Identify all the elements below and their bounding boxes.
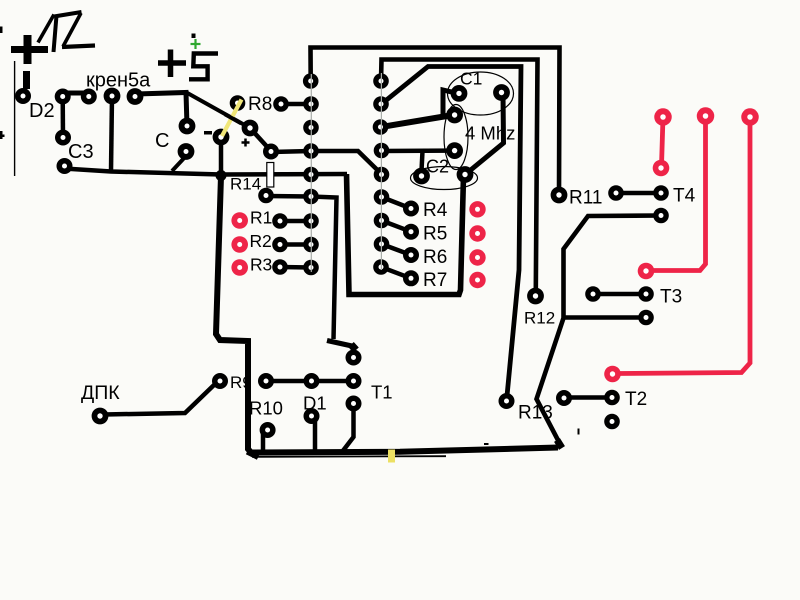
wire junction to T3 lower pad bbox=[564, 315, 647, 320]
svg-text:R7: R7 bbox=[423, 270, 447, 291]
red pad R1 bbox=[231, 212, 248, 229]
svg-text:R9: R9 bbox=[230, 373, 252, 392]
pad DPK bbox=[92, 408, 109, 425]
svg-text:R14: R14 bbox=[230, 175, 261, 194]
pad R3 right bbox=[272, 259, 288, 275]
left edge tick top bbox=[0, 27, 3, 34]
red pad column 1 bbox=[469, 201, 485, 217]
wire minus pad down to junction bbox=[219, 142, 224, 176]
left margin thin line bbox=[14, 61, 16, 176]
wire bottom rail from C3 to IC bbox=[64, 169, 347, 175]
svg-text:R8: R8 bbox=[248, 94, 272, 115]
label plus sign bbox=[242, 139, 250, 147]
green plus mark bbox=[191, 39, 201, 49]
stray dash on rail left bbox=[484, 443, 489, 445]
pad left of D1 row bbox=[258, 373, 274, 389]
red trace to T4 area bbox=[662, 117, 664, 166]
wire arrow blob at rail end bbox=[557, 440, 562, 448]
pad left of T2 bbox=[556, 390, 572, 406]
wire R3 link bbox=[280, 265, 311, 270]
pads T2 bbox=[604, 390, 620, 406]
pad R9 bbox=[212, 373, 228, 389]
yellow slash through minus pad bbox=[222, 100, 242, 137]
svg-text:T1: T1 bbox=[371, 382, 393, 403]
pad crystal bottom bbox=[446, 142, 463, 159]
wire R2 link bbox=[280, 242, 311, 247]
pad kren5a 3 bbox=[127, 88, 144, 105]
svg-text:R12: R12 bbox=[524, 309, 555, 328]
wire T1 top pad blob bbox=[351, 345, 356, 351]
svg-text:2: 2 bbox=[262, 231, 272, 251]
pad minus bbox=[213, 129, 230, 146]
pad R11 bbox=[551, 187, 568, 204]
stray tick right of rail bbox=[578, 429, 580, 435]
svg-text:R: R bbox=[250, 255, 263, 275]
resistor R14 body white rectangle bbox=[267, 163, 274, 188]
wire R10 stub bbox=[261, 434, 266, 453]
wire C bottom pad diagonal to rail bbox=[172, 156, 186, 171]
wire C2 right down U-shape back up to rail bbox=[347, 174, 464, 295]
wire plus pad to IC pin and diagonal to right column bbox=[271, 151, 382, 174]
junction dot on bottom rail bbox=[216, 170, 227, 181]
handwritten digits 12 bbox=[38, 12, 95, 52]
wire DPK pad to R9 bbox=[104, 385, 214, 415]
wire +12 lead stub to D2 pad bbox=[23, 71, 30, 89]
wire kren5a center pad down to bottom rail bbox=[111, 96, 112, 171]
svg-text:ДПК: ДПК bbox=[81, 382, 120, 404]
wire top bus 1 to R11 bbox=[311, 48, 560, 196]
wire T4 link bbox=[616, 191, 661, 196]
wire right net T4 to T3 to rail V bbox=[537, 216, 662, 445]
wire pad to C3 top bbox=[60, 97, 65, 138]
wire diagonal overlay over yellow slash bbox=[225, 114, 241, 123]
wire IC right pins diagonals to R4 R5 R6 R7 bbox=[381, 197, 411, 278]
wire T2 link bbox=[564, 395, 612, 400]
svg-text:R1: R1 bbox=[250, 208, 272, 228]
pad plus bbox=[263, 144, 279, 160]
IC U1 left column pads bbox=[303, 73, 319, 275]
pad kren5a 1 bbox=[81, 89, 97, 105]
wire top bus 2 to R12 bbox=[381, 60, 538, 291]
pad between diagonals bbox=[242, 120, 259, 137]
label minus sign bbox=[204, 131, 212, 135]
pad R10 bbox=[260, 422, 276, 438]
svg-text:крен5а: крен5а bbox=[86, 70, 151, 92]
svg-text:C: C bbox=[155, 130, 169, 152]
pad C2 left bbox=[413, 168, 430, 185]
wire R14 pad row to IC and down to T1 bbox=[266, 196, 337, 339]
wire ground net left vertical and bottom rail bbox=[216, 176, 558, 453]
wire D1 stub bbox=[313, 420, 318, 452]
pad R8 right bbox=[273, 96, 289, 112]
red pad above T2 bbox=[604, 366, 621, 383]
red pad column 3 bbox=[469, 249, 485, 265]
left edge tick lower bbox=[0, 131, 5, 139]
pad R2 right bbox=[272, 237, 288, 253]
red pad column 4 bbox=[469, 272, 485, 288]
small black dot above 5 bbox=[192, 34, 196, 39]
wire R8 link bbox=[281, 102, 311, 107]
svg-text:T2: T2 bbox=[625, 389, 647, 410]
wire rail corner nub bbox=[247, 452, 258, 458]
red trace to T3 area bbox=[652, 116, 706, 271]
wire diagonal corner to pad near minus bbox=[187, 93, 251, 129]
svg-text:R11: R11 bbox=[569, 188, 602, 209]
handwritten digit 5 bbox=[189, 54, 218, 80]
svg-text:R10: R10 bbox=[249, 398, 283, 419]
svg-text:D2: D2 bbox=[29, 100, 55, 122]
power symbol +12 plus sign bbox=[11, 35, 48, 64]
wire thin echo line under bottom rail bbox=[252, 455, 446, 458]
svg-text:T3: T3 bbox=[660, 287, 682, 308]
IC column center thin line right bbox=[380, 73, 382, 270]
pads T1 bbox=[346, 350, 362, 366]
wire D2 column pad bar bbox=[61, 91, 90, 96]
pad C2 right bbox=[457, 166, 474, 183]
red pads top row bbox=[654, 107, 759, 126]
wire top bus 3 to R13 bbox=[384, 67, 521, 397]
svg-text:C1: C1 bbox=[460, 69, 482, 89]
wire T1 top pad hook bbox=[327, 341, 356, 350]
wire diagonal to plus pad bbox=[250, 128, 271, 151]
wire IC pin to 4MHz bottom pad bbox=[381, 148, 449, 153]
svg-text:R5: R5 bbox=[423, 224, 447, 245]
crystal 4MHz outline ellipse bbox=[444, 105, 468, 170]
pad R1 right bbox=[272, 213, 288, 229]
wire thick diagonal IC pin to 4MHz top bbox=[381, 116, 447, 127]
pad crystal top bbox=[446, 107, 463, 124]
svg-text:3: 3 bbox=[263, 255, 273, 275]
pad C top bbox=[179, 118, 196, 135]
pads T4 bbox=[608, 185, 624, 201]
wire branch down to C2 left pad bbox=[422, 151, 423, 171]
red pad R3 bbox=[231, 259, 248, 276]
pad R12 bbox=[527, 288, 544, 305]
svg-text:R: R bbox=[250, 231, 263, 251]
svg-text:C3: C3 bbox=[68, 141, 94, 163]
pad C1 left bbox=[451, 85, 468, 102]
wire T3 link bbox=[593, 292, 646, 297]
red pad above T3 bbox=[638, 263, 655, 280]
pad kren5a 2 bbox=[104, 88, 121, 105]
svg-text:R4: R4 bbox=[423, 200, 448, 221]
pad C bottom bbox=[178, 143, 195, 160]
IC U1 right column pads bbox=[373, 73, 390, 275]
pads R4 R5 R6 R7 bbox=[403, 201, 419, 287]
black pads bbox=[15, 88, 289, 275]
pads D1 bbox=[304, 373, 320, 389]
svg-text:4 Mhz: 4 Mhz bbox=[465, 123, 515, 144]
IC column center thin line left bbox=[310, 74, 312, 272]
pad C1 right bbox=[493, 84, 510, 101]
wire kren5a right pad to corner and down to C pad bbox=[136, 93, 187, 127]
svg-text:T4: T4 bbox=[673, 186, 696, 207]
wire C1 right down to C2 right bbox=[467, 94, 504, 173]
capacitor C2 outline ellipse bbox=[411, 167, 478, 190]
pad R13 bbox=[499, 393, 515, 409]
svg-text:C2: C2 bbox=[426, 157, 449, 177]
pads T3 bbox=[585, 286, 601, 302]
svg-text:D1: D1 bbox=[303, 393, 327, 414]
wire R9 row to T1 middle pad bbox=[266, 379, 354, 384]
pad R14 bbox=[258, 188, 274, 204]
wire R1 link bbox=[280, 219, 311, 224]
power symbol +5 plus sign bbox=[158, 50, 186, 78]
red pad above T4 bbox=[653, 160, 670, 177]
pad D2 anode bbox=[15, 88, 31, 104]
wire T1 bottom pad to rail bbox=[342, 408, 354, 452]
red pad R2 bbox=[231, 236, 248, 253]
wire elbow 4MHz top to C1 left bbox=[443, 90, 454, 114]
red trace to T2 area bbox=[618, 117, 750, 374]
pad C3 top bbox=[55, 130, 71, 146]
pad C3 bottom bbox=[57, 158, 73, 174]
svg-text:R6: R6 bbox=[423, 247, 447, 268]
red pad column 2 bbox=[469, 225, 485, 241]
yellow tick on bottom rail bbox=[388, 450, 395, 463]
pad D2 cathode bbox=[55, 89, 71, 105]
pad R8 left bbox=[230, 95, 246, 111]
capacitor C1 outline ellipse bbox=[448, 72, 514, 115]
svg-text:R13: R13 bbox=[518, 403, 553, 424]
